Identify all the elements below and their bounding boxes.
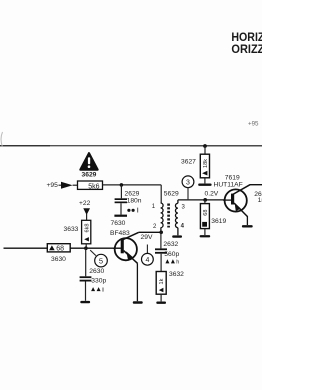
base wire 7619 [178,199,226,201]
svg-text:5k6: 5k6 [88,183,99,190]
emitter wire 7619 [246,216,248,225]
note marker triangles [91,287,103,292]
resistor 3619 value 68 [200,200,209,229]
svg-text:68: 68 [203,209,209,215]
label 5629 [164,191,179,198]
label +22 [79,200,91,207]
resistor 3629 value 5k6 [78,181,103,190]
wire [204,229,206,235]
label 0.2V [205,190,219,197]
circle 5 [90,250,107,267]
svg-text:3633: 3633 [64,226,79,233]
capacitor 2632 value 560p [155,241,179,258]
svg-text:1k: 1k [159,278,165,284]
label 7619 [225,174,240,181]
label 3633 [64,226,79,233]
svg-text:h: h [176,260,179,266]
title ORIZZONTALE [231,42,264,56]
svg-text:7619: 7619 [225,174,240,181]
label 3629 [82,172,97,179]
svg-text:4: 4 [145,257,149,264]
svg-text:3629: 3629 [82,172,97,179]
wire [85,282,87,301]
svg-text:2630: 2630 [89,268,104,275]
arrow +22 [83,208,90,215]
svg-text:6k8: 6k8 [84,223,90,232]
svg-text:18k: 18k [203,159,209,168]
ground [198,184,211,186]
emitter wire 7630 [136,263,138,301]
svg-text:3630: 3630 [51,256,66,263]
svg-text:4: 4 [181,224,185,230]
ground [133,301,143,303]
junction [203,198,207,202]
note marker dots [127,208,137,213]
label 3630 [51,256,66,263]
svg-text:1n: 1n [258,197,262,204]
circle 3 [182,176,194,199]
svg-text:68: 68 [56,246,64,253]
junction [120,183,124,187]
junction [159,231,163,235]
svg-text:3619: 3619 [211,218,226,225]
svg-text:0.2V: 0.2V [205,190,219,197]
svg-text:3627: 3627 [181,158,196,165]
svg-text:2632: 2632 [163,241,178,248]
wire [73,184,78,186]
transistor 7630 [113,232,139,263]
pin 1 [152,204,156,210]
ground [172,235,182,237]
svg-text:3: 3 [186,180,190,187]
svg-text:3632: 3632 [169,271,184,278]
label 3619 [211,218,226,225]
ground [80,301,90,303]
svg-text:5: 5 [99,256,103,265]
note marker triangles h [165,259,179,265]
svg-text:+95: +95 [47,182,59,189]
svg-text:560p: 560p [164,251,179,258]
wire [103,184,162,186]
svg-text:BF483: BF483 [110,230,130,237]
wire [85,244,87,248]
svg-text:+95: +95 [248,121,259,128]
label 3632 [169,271,184,278]
svg-text:ORIZZ: ORIZZ [231,42,262,56]
wire [204,146,206,154]
wire +95 rail [0,145,262,147]
junction on +95 rail [203,144,207,148]
svg-text:1: 1 [152,204,156,210]
resistor 3632 value 1k [156,272,166,295]
base wire 7630 [4,247,122,249]
junction [84,246,88,250]
svg-text:5629: 5629 [164,191,179,198]
pin 2 [153,224,157,230]
circle 4 [142,245,154,266]
svg-text:HUT11AF: HUT11AF [214,182,243,189]
collector wire 7630 [139,231,161,233]
svg-text:+22: +22 [79,200,91,207]
wire [160,232,162,248]
svg-text:3: 3 [182,204,186,210]
svg-text:29V: 29V [141,234,153,241]
resistor 3627 value 18k [200,154,209,178]
label HUT11AF [214,182,243,189]
ground [156,302,166,304]
wire [160,254,162,272]
transformer core [167,204,170,228]
svg-text:7630: 7630 [111,220,126,227]
warning triangle [80,153,97,169]
edge artifact [1,132,3,147]
label 7630 [111,220,126,227]
ground [242,225,253,227]
title HORIZONTAL [231,30,264,44]
label 1n (clipped) [258,197,266,204]
label +95 (faint, top right) [248,121,259,128]
capacitor 2629 value 180n [115,190,142,204]
label 263 (clipped) [254,191,265,198]
transformer 5629 right winding [175,200,177,235]
wire [85,248,87,276]
ground [114,215,127,217]
svg-text:330p: 330p [91,277,106,284]
label +95 input [47,182,59,189]
wire [120,203,122,214]
wire [86,214,88,220]
capacitor 2630 value 330p [80,268,107,285]
label BF483 [110,230,130,237]
label 29V [141,234,153,241]
ground [200,235,211,237]
transistor 7619 [223,185,250,217]
pin 3 [182,204,186,210]
collector wire 7619 [250,184,262,186]
svg-text:2: 2 [153,224,157,230]
wire to transformer pin 1 [160,185,162,203]
transformer 5629 left winding [161,203,163,232]
svg-text:180n: 180n [127,197,142,204]
wire [204,178,206,184]
arrow +95 input [59,182,73,189]
pin 4 [181,224,185,230]
wire [120,185,122,198]
label 3627 [181,158,196,165]
resistor 3633 value 6k8 [82,220,91,244]
wire [160,294,162,301]
resistor 3630 value 68 [47,244,70,253]
